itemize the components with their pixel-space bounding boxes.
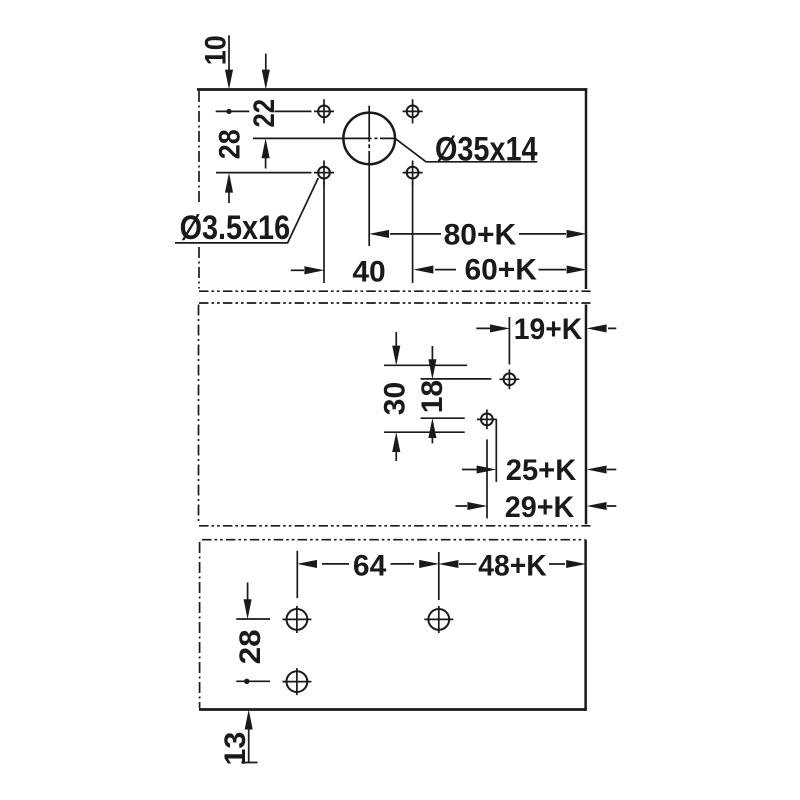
dim 40 left arrow (outside, pointing right) [291,269,304,271]
dim 80+K line [390,233,566,235]
svg-text:25+K: 25+K [506,454,577,487]
hole row line (28 row) [216,172,312,174]
dim 10 arrow (down at top edge) [228,35,230,80]
svg-text:Ø35x14: Ø35x14 [435,130,538,168]
cup vertical centerline [368,106,370,246]
extension line above hole A [508,317,510,365]
hole TR [407,106,419,118]
hole D [287,671,308,692]
svg-text:64: 64 [353,549,387,582]
dim 29+K arrows [456,505,617,507]
dim 60+K line [435,269,566,271]
dot row reference line (bottom) [236,680,270,682]
svg-text:18: 18 [416,380,449,413]
svg-text:40: 40 [352,255,385,288]
dim 28 down arrow (bottom panel) [247,583,249,613]
dim 13 end line [241,762,257,764]
bottom panel bottom edge [199,708,587,711]
svg-text:80+K: 80+K [444,219,517,252]
cup hole circle 35mm [343,113,395,165]
svg-text:28: 28 [234,629,267,664]
middle panel hole A centerline [421,378,492,380]
hole C [287,609,308,630]
svg-text:29+K: 29+K [505,491,575,524]
dim 25+K arrows [462,469,616,471]
svg-text:13: 13 [219,732,252,766]
svg-text:Ø3.5x16: Ø3.5x16 [180,209,291,247]
hole B [481,414,493,426]
middle panel bottom cut line (phantom) [199,525,591,527]
cup horizontal centerline [253,137,395,139]
hole BR [407,167,419,179]
dim 19+K arrows [476,327,616,329]
middle panel line y365 [384,364,467,366]
bottom panel right edge [584,540,587,711]
extension line 29+K [486,439,488,518]
extension line below hole BL [323,182,325,283]
extension line below hole BR [412,182,414,283]
svg-text:10: 10 [200,35,233,65]
svg-text:28: 28 [213,129,246,159]
middle panel top cut line (phantom) [199,302,591,304]
dim 22 top arrow (down at top edge) [265,54,267,80]
dim 28 arrow (up at hole row 2) [228,180,230,203]
top panel left cut edge (dash-dot) [198,91,200,289]
middle panel left cut edge (dash-dot) [198,305,200,523]
datum dot (top) [226,109,231,114]
hole C row reference line [236,618,270,620]
hole A [504,373,516,385]
bottom panel left cut edge (dash-dot) [199,542,201,708]
extension line above hole E [438,552,440,600]
extension line above hole C [296,551,298,599]
dim 48+K line [459,563,565,565]
dim 18 arrows [431,346,433,443]
svg-text:48+K: 48+K [478,549,547,582]
svg-text:19+K: 19+K [514,313,583,346]
middle panel right edge [585,305,588,525]
top panel top edge [197,88,587,91]
top panel bottom cut line (phantom) [199,290,591,292]
datum dot row line (22 row) [216,110,312,112]
datum dot (bottom) [244,679,249,684]
dim 22 bottom arrow (up at cup centerline) [265,145,267,169]
dim 30 arrows [395,332,397,461]
top panel right edge [585,88,588,289]
svg-text:22: 22 [248,99,281,128]
middle panel line y432 [384,431,465,433]
middle panel line y418 [421,417,465,419]
bottom panel top cut line (phantom) [202,539,586,541]
svg-text:60+K: 60+K [464,254,537,287]
extension line 25+K [495,420,497,482]
hole E [428,609,449,630]
dim 64 line [322,563,414,565]
leader for screw hole label [175,178,318,243]
hole TL [318,106,330,118]
hole BL [318,167,330,179]
dim 13 up arrow at bottom edge [248,716,250,762]
leader for cup hole label [395,139,537,162]
svg-text:30: 30 [379,382,412,415]
